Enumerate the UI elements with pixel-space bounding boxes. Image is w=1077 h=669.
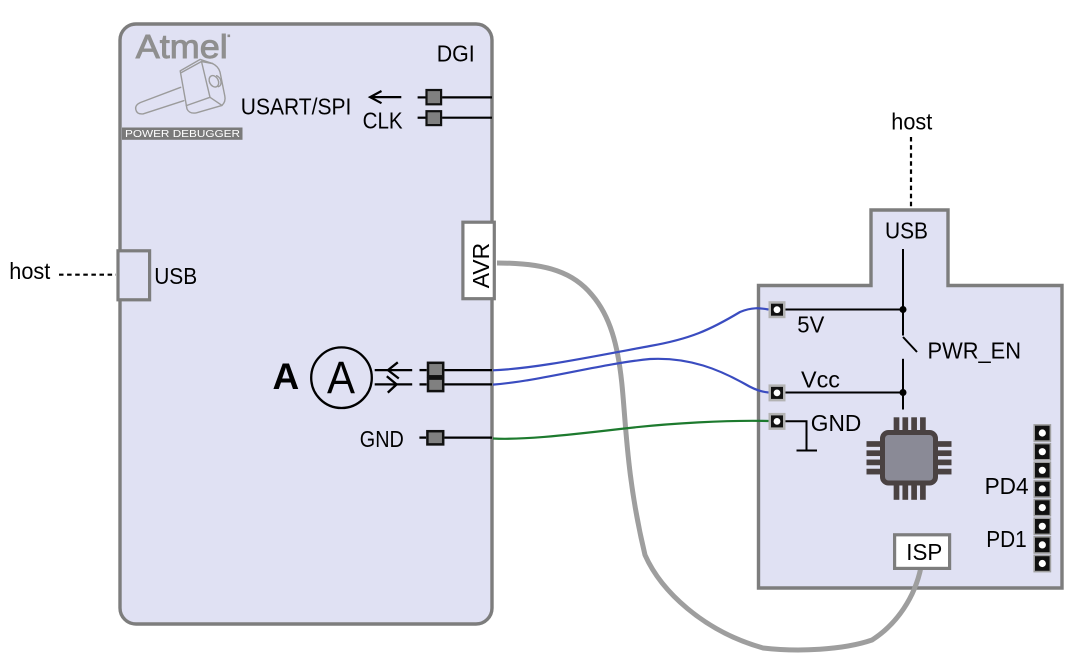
meter pin lower <box>420 379 493 392</box>
DGI pin 1 <box>418 90 492 104</box>
target board <box>759 210 1063 588</box>
power debugger board <box>120 24 492 624</box>
svg-text:5V: 5V <box>797 312 825 338</box>
node: Vcc junction <box>900 389 907 396</box>
USB net line <box>902 249 904 336</box>
svg-text:host: host <box>9 258 51 284</box>
svg-text:PD1: PD1 <box>986 526 1026 552</box>
current sense line return <box>375 376 413 392</box>
svg-text:PWR_EN: PWR_EN <box>928 337 1022 363</box>
MCU <box>867 417 952 500</box>
GND pad (target) <box>769 413 786 430</box>
ISP connector <box>895 535 950 569</box>
node: 5V junction <box>900 306 907 313</box>
Vcc net line <box>786 392 904 394</box>
svg-text:A: A <box>327 352 355 403</box>
meter pin upper <box>420 363 493 377</box>
svg-text:ISP: ISP <box>906 539 942 565</box>
svg-text:USART/SPI: USART/SPI <box>241 93 351 119</box>
AVR connector <box>463 222 494 299</box>
blue wire Vcc <box>493 359 769 393</box>
DGI arrow <box>370 91 401 103</box>
USB connector (debugger) <box>118 251 150 300</box>
gray cable AVR-to-ISP <box>497 263 921 650</box>
svg-text:Atmel: Atmel <box>136 28 228 65</box>
svg-text:GND: GND <box>811 410 862 436</box>
current sense line out <box>375 362 413 378</box>
svg-text:Vcc: Vcc <box>801 366 840 392</box>
switch lower lead / line to MCU <box>902 359 904 410</box>
hammer icon <box>136 59 225 114</box>
DGI pin 2 <box>418 111 492 125</box>
GND pin (debugger) <box>419 431 492 444</box>
Atmel logo <box>136 28 230 65</box>
Vcc pad <box>769 384 786 401</box>
svg-text:PD4: PD4 <box>985 473 1029 499</box>
host dashed link (left) <box>59 274 116 276</box>
5V net line <box>786 309 904 311</box>
svg-text:USB: USB <box>885 217 928 243</box>
switch PWR_EN <box>903 337 917 352</box>
svg-text:host: host <box>891 109 933 135</box>
8-pin header column <box>1034 425 1050 572</box>
POWER DEBUGGER label <box>122 128 243 141</box>
svg-text:GND: GND <box>360 426 404 452</box>
ground symbol <box>786 421 818 450</box>
ammeter A1 <box>311 347 372 408</box>
svg-text:CLK: CLK <box>363 108 404 134</box>
svg-text:DGI: DGI <box>437 41 475 67</box>
svg-text:POWER DEBUGGER: POWER DEBUGGER <box>125 129 240 140</box>
svg-text:AVR: AVR <box>468 243 494 289</box>
green wire GND <box>493 421 769 439</box>
svg-text:A: A <box>273 356 300 397</box>
svg-text:USB: USB <box>154 263 197 289</box>
host dashed link (right) <box>910 137 912 209</box>
blue wire 5V <box>493 308 769 370</box>
5V pad <box>769 301 786 318</box>
